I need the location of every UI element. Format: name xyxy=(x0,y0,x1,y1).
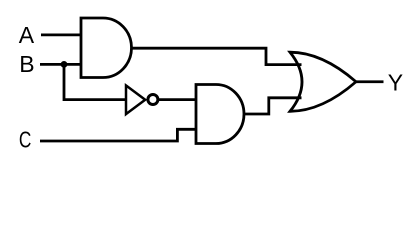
OR gate U4 xyxy=(290,52,356,111)
wire B branch to inverter xyxy=(64,64,126,99)
wire U1 output to OR input xyxy=(132,48,302,64)
junction dot on B wire xyxy=(61,61,68,68)
AND gate U3 xyxy=(196,85,244,144)
svg-text:Y: Y xyxy=(388,69,403,95)
inverter U2 bubble xyxy=(148,95,158,105)
wire C input xyxy=(40,129,196,141)
wire A input xyxy=(41,34,81,37)
wire Y output xyxy=(356,80,384,83)
inverter U2 triangle xyxy=(126,86,145,115)
wire B input xyxy=(40,63,81,66)
svg-text:B: B xyxy=(19,51,34,77)
AND gate U1 xyxy=(81,18,132,78)
svg-text:C: C xyxy=(19,127,32,153)
wire U3 output to OR input xyxy=(244,98,302,114)
svg-text:A: A xyxy=(19,22,35,48)
wire inverter output to AND U3 xyxy=(159,98,196,101)
